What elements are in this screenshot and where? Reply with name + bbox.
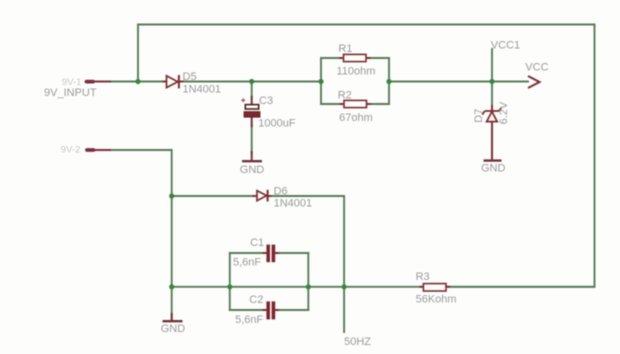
- svg-text:56Kohm: 56Kohm: [416, 294, 457, 306]
- svg-text:6.2V: 6.2V: [498, 101, 510, 124]
- svg-text:5,6nF: 5,6nF: [233, 256, 261, 268]
- svg-text:C2: C2: [249, 294, 263, 306]
- svg-text:GND: GND: [240, 164, 264, 176]
- svg-text:D5: D5: [183, 71, 197, 83]
- svg-text:D7: D7: [473, 109, 485, 123]
- svg-text:C1: C1: [250, 237, 264, 249]
- svg-text:R2: R2: [338, 89, 352, 101]
- svg-text:1N4001: 1N4001: [274, 197, 313, 209]
- svg-text:R3: R3: [416, 271, 430, 283]
- svg-text:GND: GND: [481, 163, 506, 175]
- svg-text:GND: GND: [161, 323, 186, 335]
- svg-text:50HZ: 50HZ: [344, 336, 371, 348]
- svg-text:C3: C3: [259, 95, 273, 107]
- svg-text:R1: R1: [338, 43, 352, 55]
- svg-text:5,6nF: 5,6nF: [235, 314, 263, 326]
- svg-text:1N4001: 1N4001: [183, 84, 222, 96]
- svg-text:9V_INPUT: 9V_INPUT: [44, 87, 97, 99]
- svg-text:110ohm: 110ohm: [337, 65, 376, 77]
- svg-text:VCC: VCC: [525, 61, 548, 73]
- svg-text:9V-2: 9V-2: [61, 145, 81, 156]
- svg-text:D6: D6: [274, 185, 288, 197]
- svg-text:VCC1: VCC1: [491, 40, 520, 52]
- svg-text:67ohm: 67ohm: [339, 112, 373, 124]
- svg-text:1000uF: 1000uF: [258, 117, 296, 129]
